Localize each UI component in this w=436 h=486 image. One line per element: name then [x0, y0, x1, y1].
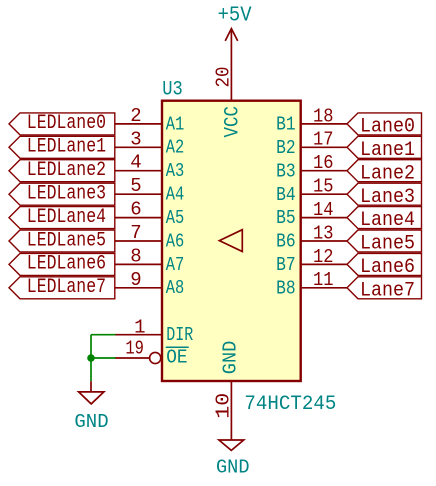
- hierarchical label Lane5: [347, 230, 422, 256]
- svg-text:+5V: +5V: [218, 4, 252, 27]
- svg-text:Lane7: Lane7: [360, 279, 415, 302]
- hierarchical label LEDLane1: [9, 136, 115, 159]
- pin 20 (VCC) of U3: [213, 29, 245, 138]
- wire vertical DIR to OE: [90, 335, 92, 358]
- svg-text:LEDLane6: LEDLane6: [27, 253, 106, 276]
- svg-text:19: 19: [125, 337, 144, 359]
- wire junction to GND: [90, 358, 92, 381]
- hierarchical label Lane7: [347, 277, 422, 303]
- svg-text:Lane2: Lane2: [360, 162, 415, 185]
- pin 14 (B5) of U3: [276, 199, 347, 229]
- svg-text:LEDLane5: LEDLane5: [27, 229, 106, 252]
- pin 18 (B1) of U3: [276, 105, 347, 135]
- IC U3 74HCT245 body: [162, 101, 301, 381]
- svg-text:B3: B3: [276, 160, 296, 182]
- pin 13 (B6) of U3: [276, 222, 347, 252]
- pin 8 (A7) of U3: [115, 245, 185, 275]
- svg-text:Lane0: Lane0: [360, 116, 415, 139]
- svg-text:14: 14: [313, 199, 334, 221]
- hierarchical label Lane0: [347, 113, 422, 139]
- svg-text:GND: GND: [219, 341, 241, 374]
- svg-text:A6: A6: [166, 230, 185, 252]
- hierarchical label LEDLane3: [9, 183, 115, 206]
- pin 1 (DIR) of U3: [115, 317, 193, 346]
- svg-text:GND: GND: [74, 411, 108, 433]
- hierarchical label Lane1: [347, 136, 422, 162]
- svg-text:LEDLane7: LEDLane7: [27, 276, 106, 299]
- svg-text:B4: B4: [276, 184, 296, 206]
- pin 12 (B7) of U3: [276, 246, 347, 276]
- value label 74HCT245: [244, 393, 336, 416]
- svg-text:18: 18: [313, 105, 334, 127]
- buffer direction triangle symbol: [219, 230, 242, 252]
- hierarchical label LEDLane0: [9, 112, 115, 135]
- reference designator U3: [162, 79, 183, 102]
- pin 19 (/OE) of U3 with inversion bubble: [115, 337, 189, 368]
- wire OE horizontal: [91, 357, 116, 359]
- pin 2 (A1) of U3: [115, 105, 185, 135]
- svg-text:LEDLane1: LEDLane1: [27, 136, 106, 159]
- svg-text:LEDLane4: LEDLane4: [27, 206, 106, 229]
- power symbol +5V: [218, 4, 252, 41]
- hierarchical label LEDLane7: [9, 276, 115, 299]
- wire DIR horizontal: [91, 334, 116, 336]
- svg-text:12: 12: [313, 246, 334, 268]
- pin 17 (B2) of U3: [276, 129, 347, 159]
- hierarchical label Lane2: [347, 160, 422, 186]
- hierarchical label LEDLane5: [9, 229, 115, 252]
- junction: [87, 354, 95, 362]
- svg-text:U3: U3: [162, 79, 183, 102]
- hierarchical label LEDLane6: [9, 253, 115, 276]
- pin 9 (A8) of U3: [115, 269, 185, 299]
- svg-text:B8: B8: [276, 277, 296, 299]
- svg-text:74HCT245: 74HCT245: [244, 393, 336, 416]
- hierarchical label LEDLane4: [9, 206, 115, 229]
- svg-text:B7: B7: [276, 254, 296, 276]
- svg-text:16: 16: [313, 152, 334, 174]
- pin 10 (GND) of U3: [213, 341, 242, 440]
- svg-text:Lane1: Lane1: [360, 139, 415, 162]
- svg-text:B6: B6: [276, 231, 296, 253]
- power symbol GND (bottom): [216, 440, 250, 478]
- svg-text:15: 15: [313, 176, 334, 198]
- svg-text:17: 17: [313, 129, 334, 151]
- svg-text:3: 3: [130, 128, 141, 150]
- svg-text:8: 8: [130, 245, 141, 267]
- svg-text:GND: GND: [216, 456, 250, 478]
- svg-text:OE: OE: [166, 347, 187, 369]
- svg-text:VCC: VCC: [222, 106, 245, 138]
- pin 7 (A6) of U3: [115, 222, 185, 252]
- svg-text:A8: A8: [166, 277, 185, 299]
- svg-text:2: 2: [130, 105, 141, 127]
- svg-text:LEDLane3: LEDLane3: [27, 183, 106, 206]
- svg-text:1: 1: [134, 317, 145, 339]
- svg-text:A5: A5: [166, 207, 185, 229]
- svg-text:11: 11: [313, 269, 334, 291]
- svg-text:7: 7: [130, 222, 141, 244]
- svg-text:A3: A3: [166, 160, 185, 182]
- hierarchical label Lane4: [347, 207, 422, 233]
- power symbol GND (left): [74, 381, 108, 433]
- pin 6 (A5) of U3: [115, 199, 185, 229]
- svg-text:Lane4: Lane4: [360, 209, 415, 232]
- svg-text:9: 9: [130, 269, 141, 291]
- svg-text:LEDLane2: LEDLane2: [27, 159, 106, 182]
- hierarchical label Lane6: [347, 253, 422, 279]
- svg-text:13: 13: [313, 222, 334, 244]
- svg-text:LEDLane0: LEDLane0: [27, 112, 106, 135]
- pin 3 (A2) of U3: [115, 128, 185, 158]
- pin 5 (A4) of U3: [115, 175, 185, 205]
- svg-text:B1: B1: [276, 114, 296, 136]
- svg-text:B2: B2: [276, 137, 296, 159]
- pin 15 (B4) of U3: [276, 176, 347, 206]
- pin 4 (A3) of U3: [115, 152, 185, 182]
- svg-text:A7: A7: [166, 254, 185, 276]
- svg-text:A2: A2: [166, 137, 185, 159]
- svg-text:Lane5: Lane5: [360, 233, 415, 256]
- svg-text:B5: B5: [276, 207, 296, 229]
- svg-text:10: 10: [213, 393, 235, 419]
- svg-text:5: 5: [130, 175, 141, 197]
- svg-text:20: 20: [213, 67, 235, 88]
- svg-text:A1: A1: [166, 113, 185, 135]
- svg-text:DIR: DIR: [166, 324, 193, 346]
- pin 11 (B8) of U3: [276, 269, 347, 299]
- svg-text:4: 4: [130, 152, 141, 174]
- hierarchical label LEDLane2: [9, 159, 115, 182]
- hierarchical label Lane3: [347, 183, 422, 209]
- svg-text:Lane6: Lane6: [360, 256, 415, 279]
- svg-text:A4: A4: [166, 184, 185, 206]
- svg-text:6: 6: [130, 199, 141, 221]
- svg-text:Lane3: Lane3: [360, 186, 415, 209]
- pin 16 (B3) of U3: [276, 152, 347, 182]
